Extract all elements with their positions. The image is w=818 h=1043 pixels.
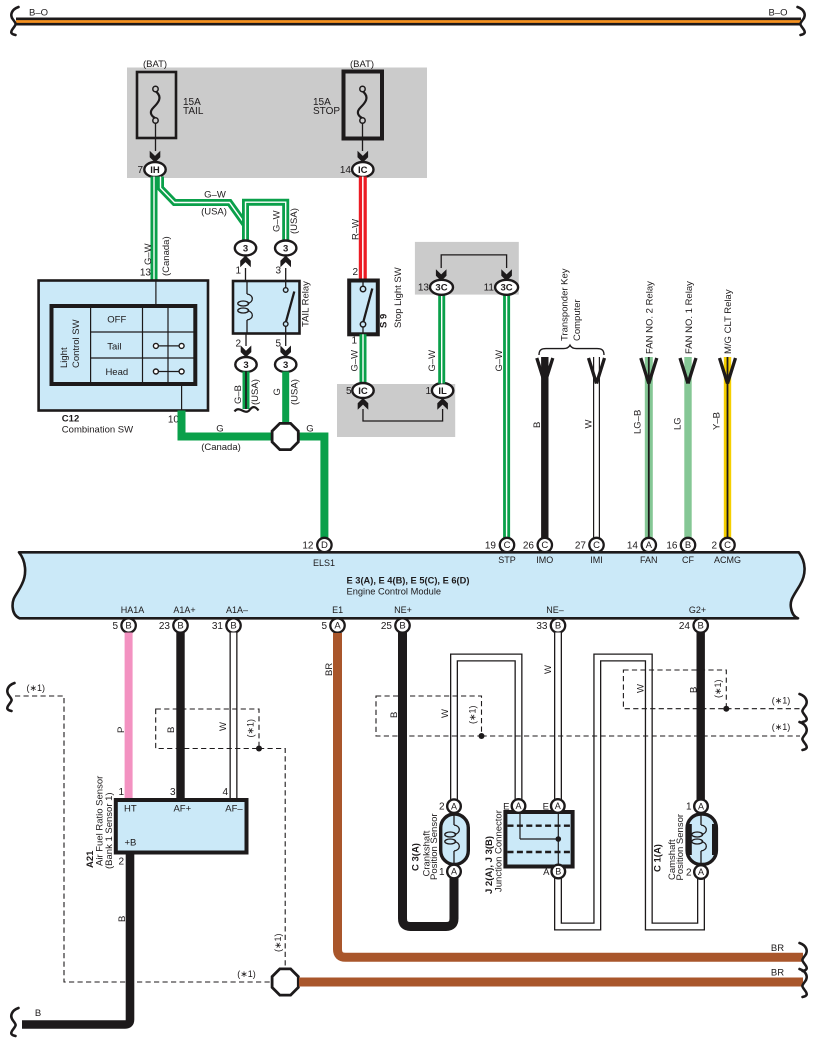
connector 3 lower right: [275, 357, 296, 372]
svg-text:R–W: R–W: [351, 219, 362, 240]
dashed line NE box to right edge: [482, 735, 801, 737]
svg-text:Tail: Tail: [107, 342, 121, 353]
svg-text:A: A: [646, 540, 653, 551]
svg-text:NE–: NE–: [546, 605, 564, 615]
svg-text:G2+: G2+: [689, 605, 706, 615]
connector 3 lower left: [235, 357, 256, 372]
svg-text:2: 2: [352, 267, 358, 278]
junction block (fuse box) shading: [127, 68, 427, 179]
svg-text:(∗1): (∗1): [273, 933, 283, 952]
wire fuse TAIL to IH: [155, 123, 157, 151]
svg-text:5: 5: [346, 386, 352, 397]
svg-text:STOP: STOP: [313, 106, 340, 117]
svg-text:2: 2: [439, 802, 445, 813]
svg-text:5: 5: [112, 621, 118, 632]
svg-text:3: 3: [283, 360, 288, 371]
svg-text:FAN NO. 2 Relay: FAN NO. 2 Relay: [645, 281, 656, 354]
svg-text:7: 7: [137, 165, 143, 176]
svg-text:23: 23: [159, 621, 171, 632]
svg-text:(USA): (USA): [289, 208, 300, 234]
svg-text:Computer: Computer: [572, 299, 583, 341]
jumper wire IC to IL: [363, 409, 443, 421]
connector IC/IL shading: [337, 384, 455, 437]
wire BR E1: [338, 633, 804, 957]
svg-text:B: B: [689, 687, 700, 693]
wire B from A21 +B to ground splice: [22, 853, 130, 1025]
ECM pin IMI: [589, 538, 603, 552]
wire G-W from S9 to IC: [360, 334, 367, 383]
arrow into IC: [358, 151, 369, 163]
svg-text:W: W: [636, 684, 647, 693]
svg-text:5: 5: [321, 621, 327, 632]
svg-text:(USA): (USA): [290, 379, 301, 405]
svg-text:25: 25: [381, 621, 393, 632]
squiggle BR top: [800, 943, 807, 971]
wire G-W Canada from IH to combination switch pin 13: [151, 177, 158, 281]
svg-text:BR: BR: [771, 943, 784, 954]
svg-text:C 3(A): C 3(A): [411, 843, 422, 871]
svg-text:C: C: [504, 540, 511, 551]
svg-text:3: 3: [243, 243, 248, 254]
svg-text:B: B: [555, 867, 561, 877]
svg-text:1: 1: [118, 787, 124, 798]
ECM pin HA1A: [121, 618, 135, 632]
svg-text:16: 16: [666, 540, 678, 551]
arrow into 3C left: [436, 269, 447, 281]
svg-text:FAN NO. 1 Relay: FAN NO. 1 Relay: [684, 281, 695, 354]
svg-text:13: 13: [418, 283, 430, 294]
svg-text:W: W: [543, 665, 554, 674]
dot at A1A box corner: [256, 746, 262, 752]
svg-text:BR: BR: [771, 968, 784, 979]
svg-text:Y–B: Y–B: [712, 412, 723, 430]
connector 3C pin 11: [495, 280, 518, 295]
svg-text:A1A+: A1A+: [173, 605, 195, 615]
svg-text:W: W: [440, 709, 451, 718]
ECM pin STP: [500, 538, 514, 552]
dot at G2 box corner: [723, 706, 729, 712]
svg-text:ACMG: ACMG: [714, 555, 741, 565]
svg-text:TAIL Relay: TAIL Relay: [301, 281, 312, 327]
wire P HA1A to A21 HT: [125, 633, 133, 801]
wire W to IMI: [593, 357, 600, 539]
svg-text:M/G CLT Relay: M/G CLT Relay: [723, 289, 734, 354]
svg-text:31: 31: [212, 621, 224, 632]
svg-text:G–B: G–B: [233, 385, 244, 404]
svg-text:IMO: IMO: [536, 555, 553, 565]
svg-text:3: 3: [275, 266, 281, 277]
ECM pin A1A-: [226, 618, 240, 632]
svg-text:A: A: [451, 867, 457, 877]
svg-text:B–O: B–O: [768, 8, 787, 19]
ECM pin G2+: [694, 618, 708, 632]
fuse 15A STOP: [344, 72, 383, 139]
svg-text:HT: HT: [124, 804, 137, 815]
svg-text:(USA): (USA): [201, 207, 227, 218]
svg-text:C: C: [593, 540, 600, 551]
wire B-O horizontal bus: [16, 18, 801, 26]
wire G-W from 3C-13 to IL: [438, 295, 445, 384]
svg-text:IC: IC: [358, 386, 368, 397]
svg-text:TAIL: TAIL: [183, 106, 204, 117]
svg-text:B: B: [399, 621, 405, 632]
svg-text:3C: 3C: [501, 283, 513, 294]
connector 3 left: [235, 241, 256, 256]
svg-text:G–W: G–W: [350, 350, 361, 372]
svg-text:OFF: OFF: [107, 315, 126, 326]
svg-text:C: C: [724, 540, 731, 551]
svg-text:2: 2: [711, 540, 717, 551]
svg-text:3: 3: [170, 787, 176, 798]
ECM pin CF: [681, 538, 695, 552]
svg-text:2: 2: [686, 868, 692, 879]
junction connector J2(A) J3(B): [505, 812, 572, 867]
svg-text:IL: IL: [438, 386, 447, 397]
arrow into connector 3 left top: [240, 256, 251, 268]
svg-text:Engine Control Module: Engine Control Module: [347, 587, 442, 597]
svg-text:HA1A: HA1A: [121, 605, 145, 615]
sensor C1(A) Camshaft Position Sensor: [687, 814, 716, 865]
svg-text:G: G: [216, 424, 223, 435]
connector IC pin 5 with arrow: [358, 398, 369, 410]
junction pins: [512, 799, 526, 813]
svg-text:3C: 3C: [435, 283, 447, 294]
brace Transponder Key Computer: [539, 345, 604, 355]
wire W NE- to junction connector E: [554, 633, 562, 801]
ECM Engine Control Module band: [13, 552, 805, 618]
svg-text:FAN: FAN: [640, 555, 658, 565]
dashed line G2 box to right edge: [726, 708, 800, 710]
svg-text:STP: STP: [498, 555, 516, 565]
svg-text:24: 24: [679, 621, 691, 632]
svg-text:E 3(A), E 4(B), E 5(C), E 6(D): E 3(A), E 4(B), E 5(C), E 6(D): [347, 576, 470, 586]
svg-text:+B: +B: [125, 838, 137, 849]
wire BR from splice to right edge: [299, 978, 803, 987]
svg-text:A: A: [698, 867, 704, 877]
svg-text:C12: C12: [62, 414, 79, 425]
svg-text:G–W: G–W: [494, 350, 505, 372]
arrow into IH: [150, 151, 161, 163]
svg-text:E1: E1: [332, 605, 343, 615]
svg-text:13: 13: [140, 268, 152, 279]
squiggle right upper: [800, 694, 807, 722]
svg-text:B: B: [532, 422, 543, 428]
connector IC pin 14: [352, 162, 373, 177]
svg-text:Stop Light SW: Stop Light SW: [393, 267, 404, 328]
svg-text:(∗1): (∗1): [468, 705, 478, 724]
svg-text:12: 12: [302, 540, 314, 551]
svg-text:A: A: [334, 621, 341, 632]
svg-text:ELS1: ELS1: [313, 558, 335, 568]
wire R-W from IC to stop light switch: [359, 177, 367, 281]
jumper wire 3C to 3C: [441, 255, 506, 268]
svg-text:G: G: [272, 388, 283, 395]
wire B to IMO: [541, 357, 548, 539]
svg-text:1: 1: [235, 266, 241, 277]
fuse 15A TAIL: [137, 72, 176, 138]
svg-text:2: 2: [235, 339, 241, 350]
svg-text:Light: Light: [59, 347, 70, 368]
svg-text:3: 3: [283, 243, 288, 254]
ECM pin A1A+: [173, 618, 187, 632]
svg-text:3: 3: [243, 360, 248, 371]
svg-text:(∗1): (∗1): [772, 696, 791, 706]
svg-text:2: 2: [118, 857, 124, 868]
squiggle B wire end: [11, 1008, 18, 1036]
svg-text:G–W: G–W: [272, 210, 283, 232]
svg-text:IMI: IMI: [590, 555, 603, 565]
arrow into connector 3 lower-right: [280, 346, 291, 358]
svg-text:Control SW: Control SW: [71, 319, 82, 368]
svg-text:(Bank 1 Sensor 1): (Bank 1 Sensor 1): [104, 792, 115, 869]
wire G-W from 3C-11 to STP: [503, 295, 510, 540]
svg-text:(∗1): (∗1): [246, 719, 256, 738]
relay TAIL Relay: [233, 281, 300, 334]
connector 3C shading: [415, 242, 519, 295]
relay pin 2 lead: [245, 334, 247, 347]
svg-text:AF+: AF+: [173, 804, 191, 815]
svg-text:(BAT): (BAT): [350, 59, 374, 70]
svg-text:A: A: [543, 867, 550, 878]
svg-text:B: B: [685, 540, 691, 551]
svg-text:14: 14: [340, 165, 352, 176]
C1 pin circles: [694, 799, 708, 813]
svg-text:(∗1): (∗1): [713, 679, 723, 698]
wire B NE+ loop to crankshaft sensor: [403, 633, 455, 927]
svg-text:IH: IH: [150, 165, 160, 176]
arrow into connector 3 right top: [280, 256, 291, 268]
svg-text:11: 11: [484, 283, 495, 294]
dashed box around A1A wires: [156, 709, 259, 749]
squiggle right middle: [800, 722, 807, 750]
svg-text:B: B: [389, 712, 400, 718]
svg-text:B: B: [117, 916, 128, 922]
arrow into 3C right: [501, 269, 512, 281]
ECM pin E1: [330, 618, 344, 632]
relay pin 5 lead: [285, 334, 287, 347]
arrow into connector 3 lower-left: [241, 346, 252, 358]
sensor A21 Air Fuel Ratio Sensor box: [116, 800, 247, 853]
svg-text:(BAT): (BAT): [143, 59, 167, 70]
svg-text:1: 1: [425, 386, 431, 397]
ECM pin NE+: [395, 618, 409, 632]
svg-text:(∗1): (∗1): [772, 722, 791, 732]
svg-text:B: B: [166, 727, 177, 733]
wire B A1A+ to A21 AF+: [176, 633, 184, 801]
svg-text:Transponder Key: Transponder Key: [560, 268, 571, 341]
svg-text:(∗1): (∗1): [237, 969, 256, 979]
svg-text:B: B: [125, 621, 131, 632]
svg-text:27: 27: [575, 540, 587, 551]
wire G USA from relay to splice: [282, 372, 289, 425]
svg-text:B: B: [555, 621, 561, 632]
svg-text:B: B: [177, 621, 183, 632]
svg-text:P: P: [116, 727, 127, 733]
svg-text:AF–: AF–: [225, 804, 243, 815]
wire G Canada from pin 10 to splice: [182, 411, 272, 437]
svg-text:Combination SW: Combination SW: [62, 425, 133, 436]
svg-text:A1A–: A1A–: [226, 605, 248, 615]
svg-text:B: B: [35, 1008, 41, 1019]
svg-text:Position Sensor: Position Sensor: [675, 814, 686, 881]
connector 3 right: [275, 241, 296, 256]
wire G-W USA branch from IH: [161, 177, 246, 225]
dashed link to splice octagon 2: [259, 749, 285, 968]
svg-text:(∗1): (∗1): [27, 683, 46, 693]
wire LG-B to FAN: [645, 357, 653, 539]
splice octagon 2: [272, 969, 298, 995]
wire LG to CF: [684, 357, 691, 539]
wire W junction A to camshaft sensor pin2: [558, 658, 701, 927]
C3 pin circles: [447, 799, 461, 813]
dashed box around G2 wires: [623, 670, 726, 709]
wire G from splice to ELS1: [299, 437, 324, 540]
svg-text:B–O: B–O: [29, 8, 48, 19]
svg-text:A: A: [555, 801, 561, 811]
svg-text:(Canada): (Canada): [161, 236, 172, 276]
left (*1) dashed branch: [7, 683, 14, 711]
svg-text:W: W: [218, 722, 229, 731]
svg-text:LG–B: LG–B: [633, 410, 644, 434]
switch C12 Combination SW: [39, 281, 208, 411]
svg-text:4: 4: [222, 787, 228, 798]
svg-text:19: 19: [485, 540, 497, 551]
svg-text:IC: IC: [358, 165, 368, 176]
svg-text:BR: BR: [324, 663, 335, 676]
svg-text:G–W: G–W: [143, 243, 154, 265]
wire fuse STOP to IC: [362, 123, 364, 151]
splice octagon G: [272, 423, 298, 449]
svg-text:W: W: [584, 420, 595, 429]
wire G-B USA stub: [243, 372, 250, 410]
svg-text:(Canada): (Canada): [201, 442, 241, 453]
wire G-W USA run to connector 3 right: [246, 202, 286, 241]
svg-text:26: 26: [523, 540, 535, 551]
ECM pin IMO: [538, 538, 552, 552]
connector IL pin 1 arrow: [437, 398, 448, 410]
continuation squiggle right of B-O: [798, 7, 805, 35]
sensor C3(A) Crankshaft Position Sensor: [441, 814, 469, 865]
svg-text:G–W: G–W: [427, 350, 438, 372]
wire B G2+ to camshaft pin 1: [697, 633, 705, 801]
svg-text:33: 33: [536, 621, 548, 632]
svg-text:Junction Connector: Junction Connector: [494, 810, 505, 892]
connector 3C pin 13: [430, 280, 453, 295]
svg-text:B: B: [698, 621, 704, 632]
wire W crankshaft pin2 loop to junction connector E: [454, 658, 519, 801]
svg-text:A: A: [451, 801, 457, 811]
dashed box around NE+ wires: [376, 696, 482, 736]
svg-text:(USA): (USA): [250, 379, 261, 405]
wire Y-B to ACMG: [724, 357, 731, 539]
ECM pin NE-: [551, 618, 565, 632]
svg-text:B: B: [230, 621, 236, 632]
switch S9 Stop Light SW: [349, 281, 378, 335]
svg-text:Position Sensor: Position Sensor: [429, 813, 440, 880]
svg-text:CF: CF: [682, 555, 694, 565]
dot at NE box corner: [479, 733, 485, 739]
svg-text:C: C: [541, 540, 548, 551]
svg-text:G: G: [306, 424, 313, 435]
svg-text:A: A: [698, 801, 704, 811]
svg-text:C 1(A): C 1(A): [653, 844, 664, 872]
svg-text:1: 1: [351, 336, 357, 347]
wire W A1A- to A21 AF-: [230, 633, 238, 801]
wire G-W USA riser to connector 3 left: [242, 225, 249, 241]
svg-text:1: 1: [686, 802, 692, 813]
svg-text:G–W: G–W: [204, 190, 226, 201]
squiggle end of G-B wire: [235, 407, 259, 412]
svg-text:LG: LG: [673, 417, 684, 430]
svg-text:14: 14: [627, 540, 639, 551]
connector IH pin 7: [144, 162, 165, 177]
continuation squiggle left of B-O: [11, 7, 18, 35]
squiggle BR bottom: [800, 969, 807, 997]
ECM pin ACMG: [720, 538, 734, 552]
svg-text:A: A: [515, 801, 521, 811]
svg-text:E: E: [543, 801, 549, 812]
svg-text:D: D: [321, 540, 328, 551]
ECM pin ELS1: [317, 538, 331, 552]
ECM pin FAN: [642, 538, 656, 552]
svg-text:S 9: S 9: [379, 314, 390, 328]
svg-text:NE+: NE+: [394, 605, 412, 615]
svg-text:Head: Head: [105, 367, 128, 378]
